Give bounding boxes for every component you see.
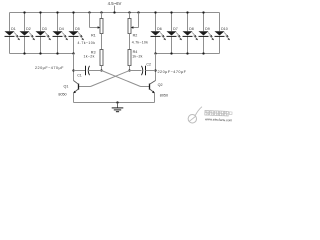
- node Q2 collector column: [154, 52, 156, 80]
- resistor R4: [128, 50, 143, 72]
- watermark logo elecfans: [188, 106, 233, 125]
- wire left LED cathode bus: [10, 53, 74, 55]
- svg-text:Q2: Q2: [158, 83, 163, 87]
- svg-text:D7: D7: [173, 27, 178, 31]
- node Q1 collector column: [72, 52, 74, 80]
- svg-text:4.7k~10k: 4.7k~10k: [132, 41, 148, 45]
- wire emitter ground rail: [74, 102, 155, 104]
- LED D1: [5, 13, 21, 54]
- wire right LED cathode bus: [156, 53, 220, 55]
- capacitor C1: [74, 66, 102, 78]
- resistor R1: [78, 11, 104, 49]
- svg-text:4.7k~10k: 4.7k~10k: [78, 41, 96, 45]
- value label C2 220uF~470uF: [158, 70, 187, 74]
- LED D3: [36, 11, 52, 54]
- svg-text:4.5~6V: 4.5~6V: [108, 1, 122, 6]
- LED D8: [183, 11, 199, 54]
- svg-text:D6: D6: [157, 27, 162, 31]
- svg-text:220μF~470μF: 220μF~470μF: [158, 70, 187, 74]
- LED D9: [199, 11, 215, 54]
- LED D5: [69, 11, 85, 53]
- svg-text:C2: C2: [146, 62, 151, 66]
- resistor R2: [128, 11, 148, 49]
- svg-text:D2: D2: [26, 27, 31, 31]
- wire cross-coupling node R4 to Q1 base: [79, 71, 130, 87]
- LED D10: [215, 13, 231, 54]
- transistor Q1 8050: [58, 81, 78, 103]
- svg-text:R1: R1: [91, 34, 96, 38]
- svg-text:D1: D1: [11, 27, 16, 31]
- svg-text:D3: D3: [42, 27, 47, 31]
- svg-text:R2: R2: [133, 33, 138, 37]
- svg-text:Q1: Q1: [64, 84, 69, 88]
- wire top +V rail: [10, 12, 220, 14]
- svg-text:D10: D10: [221, 27, 228, 31]
- LED D4: [53, 11, 69, 54]
- transistor Q2 8050: [150, 81, 169, 103]
- resistor R3: [84, 50, 104, 72]
- svg-text:D4: D4: [59, 27, 64, 31]
- svg-text:D9: D9: [205, 27, 210, 31]
- svg-text:1k~2k: 1k~2k: [84, 55, 95, 59]
- capacitor C2: [130, 62, 156, 75]
- ground: [112, 101, 124, 111]
- svg-text:D8: D8: [189, 27, 194, 31]
- svg-text:C1: C1: [77, 73, 82, 77]
- svg-text:1k~2k: 1k~2k: [132, 54, 142, 58]
- LED D7: [167, 11, 183, 54]
- svg-text:8050: 8050: [58, 92, 66, 96]
- wire cross-coupling node R3 to Q2 base: [102, 71, 150, 87]
- svg-text:220μF~470μF: 220μF~470μF: [35, 66, 64, 70]
- LED D6: [151, 11, 167, 53]
- node +V supply stub: [113, 6, 115, 14]
- value label 4.5~6V: [108, 1, 122, 6]
- svg-text:D5: D5: [75, 27, 80, 31]
- value label C1 220uF~470uF: [35, 66, 64, 70]
- LED D2: [20, 11, 36, 54]
- svg-text:8050: 8050: [160, 93, 168, 97]
